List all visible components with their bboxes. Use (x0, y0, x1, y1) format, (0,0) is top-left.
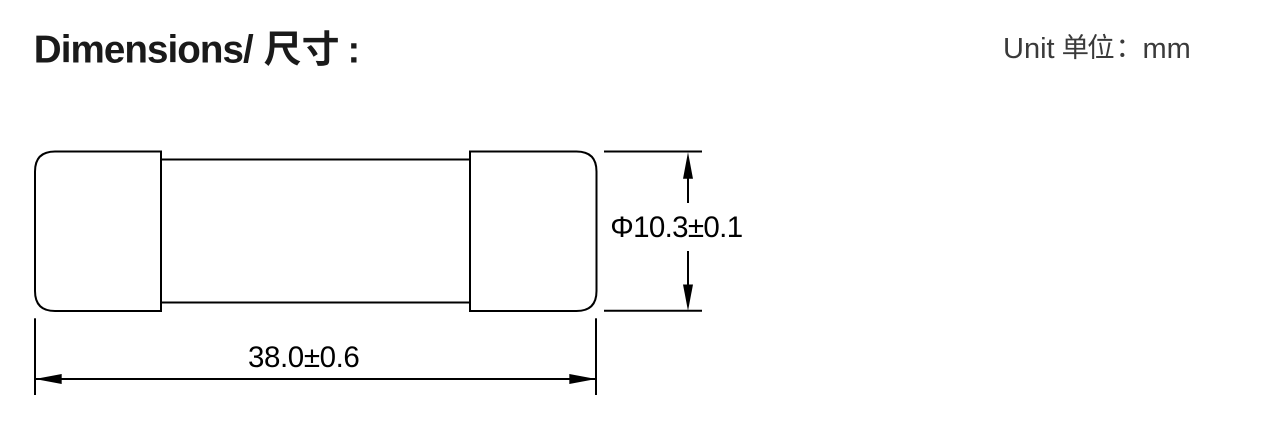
arrowhead down (diameter) (683, 285, 693, 311)
unit CJK fullwidth colon (1120, 39, 1124, 57)
length dimension line (36, 378, 595, 380)
arrowhead up (diameter) (683, 152, 693, 178)
unit CJK glyph 单 (1063, 34, 1088, 59)
arrowhead right (length) (569, 374, 596, 384)
diameter dimension line upper segment (687, 176, 689, 203)
fuse right end cap (470, 152, 597, 312)
fuse body top line (161, 159, 470, 161)
diameter dimension line lower segment (687, 251, 689, 287)
length extension line left (34, 318, 36, 395)
svg-text:Dimensions/: Dimensions/ (34, 29, 254, 72)
length extension line right (595, 318, 597, 395)
svg-text:Unit: Unit (1003, 33, 1055, 65)
diameter extension line bottom (604, 310, 702, 312)
title CJK glyph 尺 (264, 32, 300, 66)
arrowhead left (length) (35, 374, 62, 384)
fuse left end cap (35, 152, 161, 312)
unit CJK glyph 位 (1088, 34, 1113, 59)
svg-text:Φ10.3±0.1: Φ10.3±0.1 (610, 211, 742, 244)
diameter extension line top (604, 151, 702, 153)
svg-text:38.0±0.6: 38.0±0.6 (248, 341, 359, 374)
fuse body bottom line (161, 302, 470, 304)
svg-text::: : (348, 30, 361, 72)
svg-text:mm: mm (1143, 33, 1191, 65)
title CJK glyph 寸 (303, 30, 337, 66)
